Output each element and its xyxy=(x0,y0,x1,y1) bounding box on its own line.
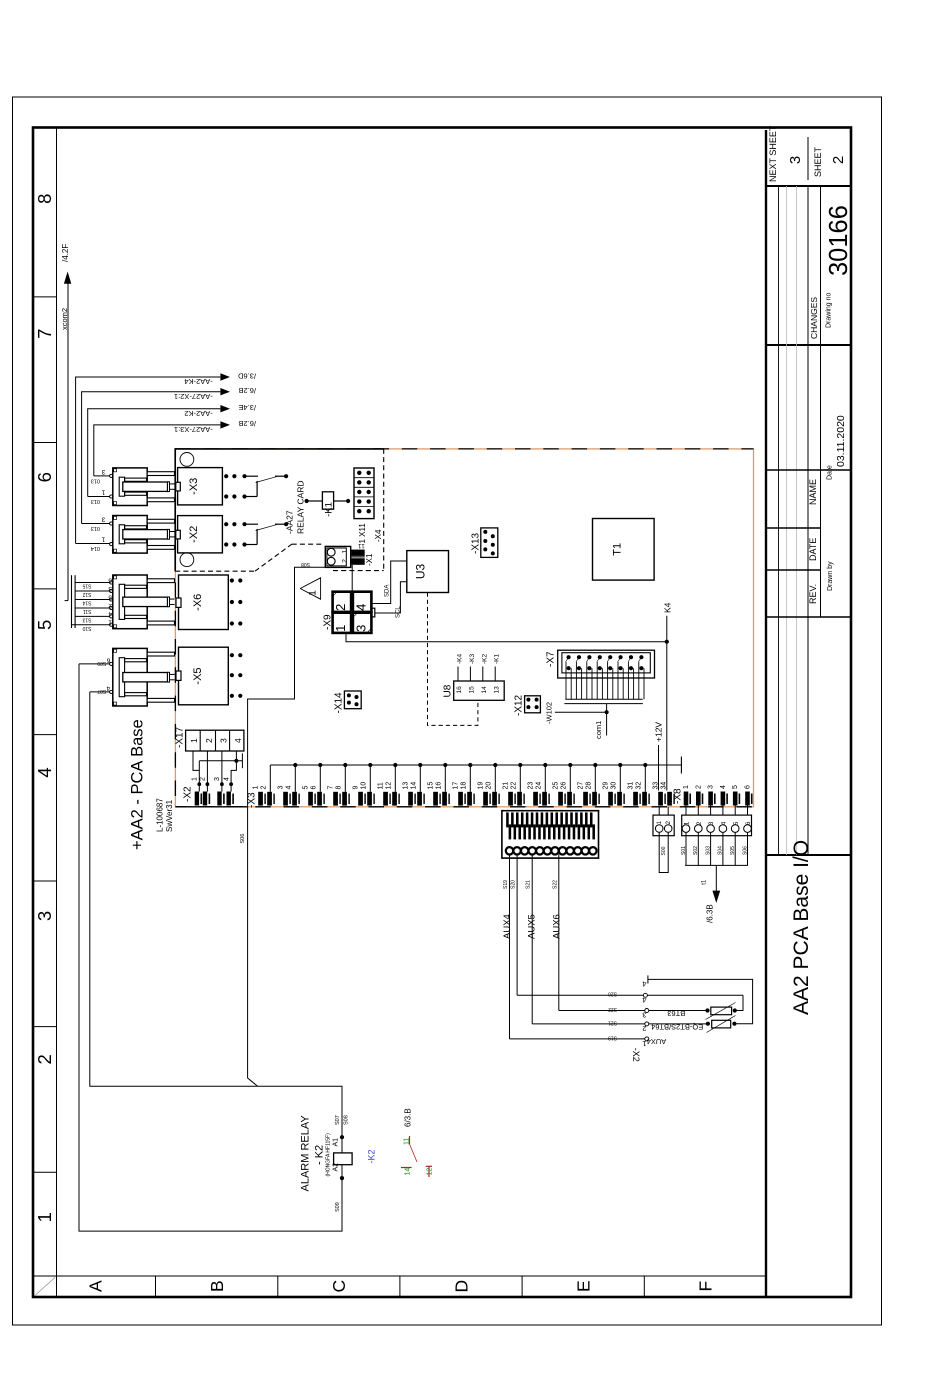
row-letter strip line xyxy=(33,1275,766,1277)
-X8 pin 1 xyxy=(684,792,689,806)
svg-text:-X2: -X2 xyxy=(188,526,200,543)
svg-text:34: 34 xyxy=(660,782,667,790)
svg-text:14: 14 xyxy=(405,1168,412,1176)
svg-text:4: 4 xyxy=(34,767,55,777)
svg-text:/3.6D: /3.6D xyxy=(237,371,256,380)
relay -K1 box xyxy=(305,499,309,503)
svg-text:6: 6 xyxy=(745,785,752,789)
svg-text:29: 29 xyxy=(603,782,610,790)
svg-text:4: 4 xyxy=(642,995,646,1004)
svg-text:6: 6 xyxy=(34,472,55,482)
svg-text:-X3: -X3 xyxy=(188,478,200,495)
svg-text:S07: S07 xyxy=(97,688,106,694)
svg-text:2: 2 xyxy=(341,559,348,563)
svg-text:2: 2 xyxy=(34,1054,55,1064)
svg-text:2: 2 xyxy=(333,604,348,611)
svg-text:S09: S09 xyxy=(335,1202,341,1212)
svg-text:com1: com1 xyxy=(594,721,603,739)
-X8 pin 5 xyxy=(733,792,738,806)
svg-text:2: 2 xyxy=(204,738,214,743)
svg-text:CHANGES: CHANGES xyxy=(809,297,819,339)
svg-text:3: 3 xyxy=(708,821,715,825)
svg-text:1: 1 xyxy=(341,550,348,554)
wire S13 (X6:4) xyxy=(75,615,110,617)
svg-text:1: 1 xyxy=(101,489,105,496)
svg-text:12: 12 xyxy=(427,1168,434,1176)
connector -X7 outer xyxy=(558,650,655,678)
plug center pin xyxy=(123,482,168,491)
contact wires and blade xyxy=(245,475,259,477)
svg-text:21: 21 xyxy=(503,782,510,790)
connector -X7 inner xyxy=(562,653,650,673)
svg-text:-W102: -W102 xyxy=(545,702,554,724)
wire S15 (X6:6) xyxy=(75,582,110,584)
svg-text:4: 4 xyxy=(642,980,646,989)
svg-text:-AA27: -AA27 xyxy=(285,510,295,534)
svg-text:24: 24 xyxy=(535,782,542,790)
wire xcom2 with up arrow to /4.2F xyxy=(67,284,69,601)
plug inner U xyxy=(119,525,124,544)
svg-text:-AA27-X2:1: -AA27-X2:1 xyxy=(174,392,213,401)
svg-text:S02: S02 xyxy=(693,846,699,855)
wire S14 (X6:5) xyxy=(75,599,110,601)
svg-text:1: 1 xyxy=(657,820,663,824)
svg-text:-AA27-X3:1: -AA27-X3:1 xyxy=(174,425,213,434)
svg-text:1: 1 xyxy=(333,625,348,632)
svg-text:-X14: -X14 xyxy=(334,692,345,714)
pin pair 17/18 xyxy=(458,792,463,806)
svg-text:S20: S20 xyxy=(608,991,617,997)
wire SDA X9:4 to U3 xyxy=(371,561,406,604)
svg-text:S01: S01 xyxy=(681,846,687,855)
-X7 pin dots xyxy=(567,655,571,659)
wire -AA27-X3:1 to /6.2B xyxy=(94,425,221,476)
strip corner diagonal xyxy=(35,1277,55,1295)
svg-text:C: C xyxy=(329,1280,349,1293)
svg-text:-X17: -X17 xyxy=(175,726,186,748)
U8 pin 15 to -K3 xyxy=(469,667,471,682)
pin pair 9/10 xyxy=(358,792,363,806)
connector -X13 xyxy=(481,528,498,558)
title block drawn-by row line xyxy=(820,186,822,617)
column-number strip line xyxy=(56,128,58,1298)
svg-text:+AA2 - PCA Base: +AA2 - PCA Base xyxy=(129,719,147,850)
pin rail xyxy=(270,764,681,766)
svg-text:SHEET: SHEET xyxy=(813,146,823,177)
svg-text:3: 3 xyxy=(101,516,105,523)
svg-text:ALARM RELAY: ALARM RELAY xyxy=(300,1115,312,1192)
relay card circle top xyxy=(180,453,194,467)
title block header row line xyxy=(807,186,809,855)
varistor BT63 xyxy=(711,1007,732,1015)
relay card -AA27 outline xyxy=(175,449,384,571)
cable -W102 lines xyxy=(565,698,642,700)
svg-text:4: 4 xyxy=(108,610,112,617)
svg-text:10: 10 xyxy=(360,782,367,790)
svg-text:S22: S22 xyxy=(552,880,558,889)
PCB +AA2 outline (black dashes bottom) xyxy=(175,806,753,808)
svg-text:3: 3 xyxy=(108,585,112,592)
svg-text:S22: S22 xyxy=(608,1006,617,1012)
svg-text:NAME: NAME xyxy=(808,479,818,505)
pin pair 25/26 xyxy=(558,792,563,806)
svg-text:SwVer31: SwVer31 xyxy=(165,799,174,832)
AUX strip teeth xyxy=(506,812,509,827)
svg-text:16: 16 xyxy=(456,686,463,694)
pin pair 5/6 xyxy=(308,792,313,806)
svg-text:-X2: -X2 xyxy=(183,786,194,802)
svg-text:S21: S21 xyxy=(526,880,532,889)
svg-text:8: 8 xyxy=(34,194,55,204)
relay -K2 coil xyxy=(340,1135,344,1139)
svg-text:2: 2 xyxy=(666,820,672,824)
connector -X14 xyxy=(344,691,361,709)
IC U8 box xyxy=(454,681,505,700)
wire S20 to -X2:4 and BT63 xyxy=(517,994,743,996)
svg-text:AUX5: AUX5 xyxy=(527,914,538,939)
jumper plug (X3:33/34) xyxy=(658,807,660,815)
svg-text:AA2 PCA Base I/O: AA2 PCA Base I/O xyxy=(790,840,813,1015)
PCB +AA2 outline (black dashes left) xyxy=(174,449,176,807)
svg-text:2: 2 xyxy=(695,785,702,789)
plug center pin xyxy=(123,673,168,682)
-X8 pin 3 xyxy=(708,792,713,806)
svg-text:-X1: -X1 xyxy=(365,553,374,566)
svg-text:5: 5 xyxy=(732,785,739,789)
svg-text:15: 15 xyxy=(469,686,476,694)
svg-text:4: 4 xyxy=(721,821,728,825)
pin pair 7/8 xyxy=(333,792,338,806)
svg-text:-AA2-K4: -AA2-K4 xyxy=(184,377,212,386)
svg-text:5: 5 xyxy=(303,786,310,790)
svg-text:15: 15 xyxy=(428,782,435,790)
title block col line x1201 xyxy=(766,185,851,187)
wire K4 from X9:1 xyxy=(346,633,667,642)
svg-text:-K3: -K3 xyxy=(469,654,476,665)
warning triangle 1 xyxy=(300,578,320,599)
svg-text:AUX4: AUX4 xyxy=(502,914,513,939)
svg-text:014: 014 xyxy=(91,545,100,551)
svg-text:6/3.B: 6/3.B xyxy=(404,1108,413,1127)
wire 014 (X2:1) xyxy=(76,543,110,545)
contact pin dots xyxy=(224,474,228,478)
svg-text:11: 11 xyxy=(404,1138,411,1145)
svg-text:SCL: SCL xyxy=(396,606,402,618)
svg-text:Drawn by: Drawn by xyxy=(827,561,834,591)
svg-text:A1: A1 xyxy=(333,1138,340,1147)
wire S07 (X5:4) xyxy=(90,691,110,693)
svg-text:-K4: -K4 xyxy=(457,654,464,665)
svg-text:3: 3 xyxy=(214,777,221,781)
svg-text:5: 5 xyxy=(34,620,55,630)
wire +12V to pin 33 xyxy=(658,745,660,791)
svg-text:/4.2F: /4.2F xyxy=(61,244,70,262)
wire S21 to -X2:2 and BT64 xyxy=(532,1023,708,1025)
plug body xyxy=(113,648,147,706)
svg-text:30166: 30166 xyxy=(825,205,853,276)
svg-text:32: 32 xyxy=(635,782,642,790)
svg-text:2: 2 xyxy=(696,821,703,825)
X9 corner notches xyxy=(333,592,338,597)
svg-text:U8: U8 xyxy=(443,684,454,697)
-X8 pin 6 xyxy=(745,792,750,806)
svg-text:1: 1 xyxy=(192,777,199,781)
svg-text:SDA: SDA xyxy=(385,585,391,597)
svg-text:31: 31 xyxy=(628,782,635,790)
svg-text:S06: S06 xyxy=(742,846,748,855)
wire S19 xyxy=(509,854,511,1039)
-X8 pin 4 xyxy=(721,792,726,806)
plug pin connection circles xyxy=(110,581,113,584)
title block col line x859 xyxy=(766,527,821,529)
wire -AA2-K4 to /3.6D xyxy=(76,377,221,544)
svg-text:27: 27 xyxy=(578,782,585,790)
pin pair 1/2 xyxy=(258,792,263,806)
svg-text:+12V: +12V xyxy=(654,722,664,742)
wire S22 to -X2:3 and BT63 xyxy=(559,1010,708,1012)
svg-text:13: 13 xyxy=(403,782,410,790)
svg-text:3: 3 xyxy=(219,738,229,743)
connector -X12 xyxy=(525,696,541,713)
svg-text:S20: S20 xyxy=(511,880,517,889)
svg-text:8: 8 xyxy=(335,786,342,790)
pin pair 29/30 xyxy=(608,792,613,806)
svg-text:D: D xyxy=(451,1280,471,1293)
svg-text:3: 3 xyxy=(708,785,715,789)
X8 collector bracket xyxy=(685,864,748,866)
plug outer bars xyxy=(147,519,174,523)
plug inner U xyxy=(119,584,124,619)
sheet cell divider xyxy=(807,137,809,180)
svg-text:3: 3 xyxy=(278,786,285,790)
connector -X17 xyxy=(186,730,244,751)
wire 013 (X3:1) xyxy=(88,496,110,498)
varistor EQ-BT2S/BT64 xyxy=(712,1020,731,1028)
title block gray rule 2 xyxy=(796,186,798,855)
connector -X2 (4-pin) pins xyxy=(197,782,201,786)
svg-text:25: 25 xyxy=(553,782,560,790)
svg-text:5: 5 xyxy=(733,821,740,825)
svg-text:3: 3 xyxy=(34,911,55,921)
svg-text:22: 22 xyxy=(510,782,517,790)
svg-text:-X9: -X9 xyxy=(323,614,334,630)
svg-text:E: E xyxy=(574,1280,594,1292)
wire -AA27-X2:1 to /6.2B xyxy=(82,392,221,524)
svg-text:12: 12 xyxy=(385,782,392,790)
svg-text:DATE: DATE xyxy=(808,538,818,561)
svg-text:RELAY CARD: RELAY CARD xyxy=(296,480,306,534)
row divider ticks xyxy=(155,1276,157,1298)
plug inner U xyxy=(119,658,124,697)
plug pin connection circles xyxy=(110,662,113,665)
svg-text:S08: S08 xyxy=(344,1115,350,1125)
plug body xyxy=(113,575,147,629)
svg-text:16: 16 xyxy=(435,782,442,790)
connector -X3 box xyxy=(178,468,223,505)
svg-text:S19: S19 xyxy=(503,880,509,889)
plug outer bars xyxy=(147,472,174,476)
jumper block -X9 xyxy=(333,592,352,612)
svg-text:-X8: -X8 xyxy=(673,788,684,804)
-X8 pin 2 xyxy=(696,792,701,806)
connector -X1 (2 sockets) xyxy=(325,546,350,567)
-X1 bold pins xyxy=(351,550,365,556)
svg-text:2: 2 xyxy=(108,602,112,609)
svg-text:1: 1 xyxy=(108,619,112,626)
svg-text:- K2: - K2 xyxy=(314,1145,326,1165)
svg-text:19: 19 xyxy=(478,782,485,790)
net K4 junction xyxy=(665,640,669,644)
svg-text:11: 11 xyxy=(378,782,385,789)
svg-text:6: 6 xyxy=(310,786,317,790)
svg-text:4: 4 xyxy=(285,786,292,790)
pin pair 33/34 xyxy=(658,792,663,806)
svg-text:013: 013 xyxy=(91,478,100,484)
svg-text:S21: S21 xyxy=(608,1019,617,1025)
svg-text:/3.4E: /3.4E xyxy=(238,403,256,412)
plug body xyxy=(113,516,147,554)
plug for -X8 xyxy=(682,815,752,836)
wire 013 (X2:3) xyxy=(82,523,110,525)
PCB bottom edge black segment xyxy=(175,806,247,808)
plug outer bars xyxy=(147,579,174,583)
svg-text:-X3: -X3 xyxy=(247,792,258,808)
svg-text:EQ-BT2S/BT64: EQ-BT2S/BT64 xyxy=(651,1022,703,1031)
svg-text:S08: S08 xyxy=(301,561,310,567)
svg-text:S03: S03 xyxy=(705,846,711,855)
svg-text:2: 2 xyxy=(260,786,267,790)
svg-text:4: 4 xyxy=(353,604,368,611)
svg-text:-K2: -K2 xyxy=(481,654,488,665)
svg-text:20: 20 xyxy=(485,782,492,790)
plug center pin xyxy=(123,597,168,606)
title block col line x1042 xyxy=(766,344,851,346)
svg-text:REV.: REV. xyxy=(808,584,818,604)
svg-text:5: 5 xyxy=(108,593,112,600)
wire S10 (X6:1) xyxy=(72,624,110,626)
svg-text:B: B xyxy=(207,1280,227,1292)
svg-text:6: 6 xyxy=(745,821,752,825)
wire S08 from -X1 xyxy=(248,567,326,1086)
svg-text:S12: S12 xyxy=(82,591,91,597)
svg-text:xcom2: xcom2 xyxy=(60,308,69,330)
-X5 contact dots xyxy=(230,653,234,657)
svg-text:18: 18 xyxy=(460,782,467,790)
svg-text:AUX4: AUX4 xyxy=(647,1037,667,1046)
X9 side tab xyxy=(371,608,374,617)
svg-text:t1: t1 xyxy=(702,879,708,885)
AUX strip sockets xyxy=(506,847,513,854)
wire S09 to relay A2 xyxy=(79,664,342,1231)
wire S11 (X6:2) xyxy=(75,607,110,609)
svg-text:-X13: -X13 xyxy=(471,532,482,554)
wire com1 xyxy=(606,704,608,736)
svg-text:-K1: -K1 xyxy=(494,654,501,665)
U8 pin 14 to -K2 xyxy=(482,667,484,682)
plug body xyxy=(113,468,147,506)
connector X11 / -X4 pin grid xyxy=(354,468,374,519)
svg-text:33: 33 xyxy=(653,782,660,790)
U8 pin 13 to -K1 xyxy=(494,667,496,682)
IC U3 box xyxy=(407,551,449,593)
wire loop S00 xyxy=(659,832,668,872)
svg-text:Drawing no: Drawing no xyxy=(826,292,833,328)
svg-text:AUX6: AUX6 xyxy=(552,914,563,939)
svg-text:/6.3B: /6.3B xyxy=(706,904,715,923)
svg-text:13: 13 xyxy=(493,686,500,694)
pin pair 21/22 xyxy=(508,792,513,806)
connector -X2 box xyxy=(178,516,223,553)
svg-text:-X12: -X12 xyxy=(514,694,525,716)
wire X1 to X9 xyxy=(351,565,353,592)
wire S07 to relay A1 xyxy=(90,692,342,1137)
svg-text:S13: S13 xyxy=(82,617,91,623)
svg-text:9: 9 xyxy=(353,786,360,790)
svg-text:1 X11: 1 X11 xyxy=(358,523,367,544)
svg-text:2: 2 xyxy=(642,1024,646,1033)
svg-text:S09: S09 xyxy=(97,660,106,666)
pin pair 15/16 xyxy=(433,792,438,806)
svg-text:S05: S05 xyxy=(730,846,736,855)
svg-text:BT63: BT63 xyxy=(667,1009,685,1018)
pin pair 27/28 xyxy=(583,792,588,806)
svg-text:S11: S11 xyxy=(83,608,92,614)
title block revision rows thin line xyxy=(778,186,780,855)
wire S22 xyxy=(558,854,560,1010)
svg-text:03.11.2020: 03.11.2020 xyxy=(835,415,847,467)
pin pair 23/24 xyxy=(533,792,538,806)
contact pin dots xyxy=(224,522,228,526)
svg-text:NEXT SHEET: NEXT SHEET xyxy=(768,125,778,182)
svg-text:26: 26 xyxy=(560,782,567,790)
svg-text:3: 3 xyxy=(353,625,368,632)
svg-text:1: 1 xyxy=(253,786,260,790)
wire S20 xyxy=(516,854,518,995)
svg-text:6: 6 xyxy=(108,576,112,583)
pin pair 13/14 xyxy=(408,792,413,806)
svg-text:30: 30 xyxy=(610,782,617,790)
svg-text:1: 1 xyxy=(684,821,691,825)
wire -AA2-K2 to /3.4E xyxy=(88,409,221,497)
plug pin connection circles xyxy=(110,522,113,525)
svg-text:U3: U3 xyxy=(414,564,428,580)
PCB +AA2 outline (orange base line) xyxy=(175,449,753,807)
svg-text:S14: S14 xyxy=(82,600,91,606)
svg-text:4: 4 xyxy=(233,738,243,743)
svg-text:L-100687: L-100687 xyxy=(156,798,165,832)
pin pair 19/20 xyxy=(483,792,488,806)
wire S19 to -X2:1 AUX4 xyxy=(510,1038,647,1040)
svg-text:Date: Date xyxy=(827,465,834,480)
column divider ticks xyxy=(33,296,57,298)
svg-text:-X4: -X4 xyxy=(374,529,383,542)
plug outer bars xyxy=(147,652,174,656)
X6 harness bar 2 xyxy=(74,575,76,628)
mirror contact (red) xyxy=(409,1136,411,1144)
connector -X6 box xyxy=(179,575,229,630)
title block col line x770 xyxy=(766,616,851,618)
U8 pin 16 to -K4 xyxy=(457,667,459,682)
wire -X2:4 loop to BT64 xyxy=(648,979,753,1023)
connector -X5 box xyxy=(179,647,229,705)
plug pin connection circles xyxy=(110,474,113,477)
PCB +AA2 outline (black dashes top) xyxy=(175,448,753,450)
relay card circle bottom xyxy=(180,553,194,567)
AUX terminal strip body xyxy=(502,811,599,858)
svg-text:S06: S06 xyxy=(240,834,246,844)
transformer T1 box xyxy=(593,519,655,581)
svg-text:S00: S00 xyxy=(661,846,667,855)
